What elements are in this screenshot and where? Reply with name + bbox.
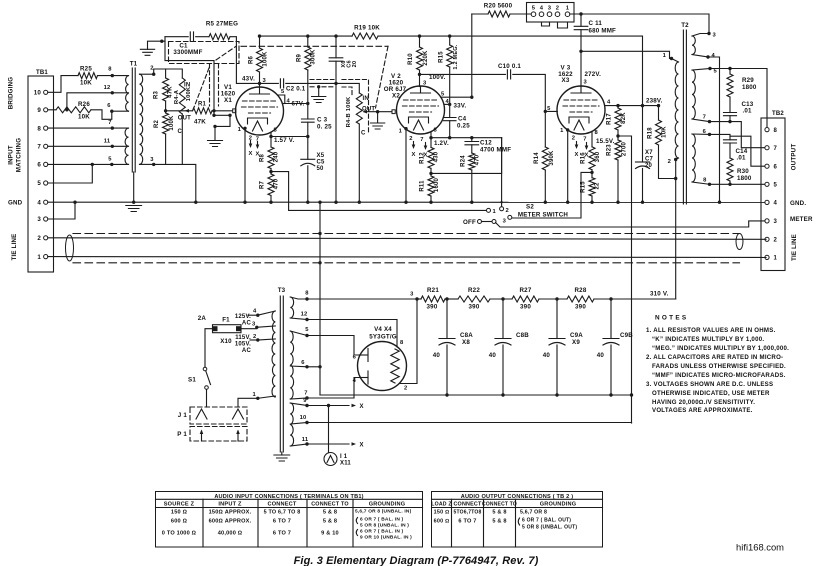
table audio input connections (156, 492, 423, 548)
svg-text:R17: R17 (607, 113, 613, 125)
svg-text:7: 7 (304, 391, 307, 397)
resistor R10 220K (418, 34, 421, 37)
svg-text:0 TO 1000 Ω: 0 TO 1000 Ω (162, 531, 197, 537)
svg-text:X2: X2 (392, 93, 400, 100)
svg-text:AC: AC (242, 321, 252, 327)
V2 pin 8 cathode (431, 132, 502, 138)
svg-text:CONNECT: CONNECT (267, 502, 296, 508)
switch S2 contact 2 (500, 207, 504, 211)
svg-text:CONNECT TO: CONNECT TO (311, 502, 349, 508)
dashed diagonal shield V1 (216, 46, 236, 60)
capacitor C13 .01 (729, 97, 731, 113)
svg-text:2: 2 (404, 386, 407, 392)
svg-text:J 1: J 1 (178, 412, 188, 419)
capacitor C11 680MMF (580, 14, 582, 26)
svg-text:5 & 8: 5 & 8 (492, 510, 506, 516)
ground under T1 (126, 206, 142, 212)
resistor R27 390 (512, 296, 539, 302)
svg-text:15.5V.: 15.5V. (596, 138, 615, 145)
svg-text:12: 12 (301, 312, 308, 318)
svg-text:“MEG.” INDICATES MULTIPLY BY: “MEG.” INDICATES MULTIPLY BY 1,000,000. (652, 345, 789, 352)
svg-text:5: 5 (37, 180, 41, 187)
wire TB1-7 to T1 terminal 11 (48, 145, 113, 147)
wire R2 to T1-3 line (165, 134, 167, 164)
grid shield box with ground (214, 111, 230, 140)
svg-text:1: 1 (493, 209, 497, 215)
wire T3-6 to ground column (307, 366, 320, 368)
resistor R14 390K (544, 111, 546, 147)
resistor R23 2700 (615, 140, 621, 160)
terminal block TB2 (761, 118, 785, 271)
wire V1 cathode tap to meter switch (271, 172, 487, 211)
svg-text:1: 1 (238, 127, 242, 133)
svg-text:6 OR 7 ( BAL. IN ): 6 OR 7 ( BAL. IN ) (360, 517, 404, 523)
resistor R8 240 (270, 137, 272, 148)
T3 secondary 9-10-11 heater (290, 403, 293, 446)
svg-text:N O T E S: N O T E S (655, 315, 687, 322)
svg-text:220K: 220K (423, 50, 429, 66)
svg-text:5,6,7 OR 8: 5,6,7 OR 8 (520, 510, 547, 516)
svg-text:82K: 82K (621, 112, 627, 124)
T3 secondary 8-12 (290, 297, 293, 318)
svg-text:2. ALL CAPACITORS ARE RATED IN: 2. ALL CAPACITORS ARE RATED IN MICRO- (646, 354, 783, 361)
svg-text:R9: R9 (297, 54, 303, 63)
ground stub at V2 grid (377, 112, 379, 123)
svg-text:272V.: 272V. (585, 71, 602, 78)
svg-text:X9: X9 (572, 339, 580, 346)
svg-text:47K: 47K (168, 86, 174, 98)
T3 primary terminal 3 (257, 326, 276, 327)
svg-text:7: 7 (108, 120, 111, 126)
wire feedback vertical to R1 junction (165, 37, 214, 111)
svg-text:11: 11 (104, 139, 111, 145)
svg-text:2: 2 (409, 136, 412, 142)
svg-text:390: 390 (520, 304, 531, 311)
capacitor C9A 40 (X9) (556, 299, 558, 339)
svg-text:X8: X8 (462, 339, 470, 346)
potentiometer R4-A 100K (179, 78, 185, 114)
svg-text:TB2: TB2 (772, 111, 784, 117)
svg-text:T3: T3 (278, 287, 286, 294)
svg-text:100K: 100K (263, 51, 269, 67)
V2 pin 1 (404, 127, 407, 130)
terminal block TB1 (28, 70, 54, 272)
svg-text:HAVING 20,000Ω./V SENSITIVITY: HAVING 20,000Ω./V SENSITIVITY. (652, 399, 755, 406)
svg-text:5: 5 (547, 106, 551, 112)
svg-text:X: X (411, 152, 415, 158)
T2 primary winding (675, 62, 678, 158)
wire V2 cathode tap to meter contact 2 (431, 138, 502, 174)
resistor R15b 22 (591, 170, 593, 178)
svg-text:OFF: OFF (463, 219, 476, 226)
V1 pin 1 (243, 127, 246, 130)
svg-text:5: 5 (281, 89, 285, 95)
V4 plate 4 (359, 377, 368, 379)
svg-text:LOAD Z: LOAD Z (431, 502, 452, 508)
svg-text:R20 5600: R20 5600 (484, 3, 513, 10)
resistor R11 1600 (430, 168, 432, 176)
svg-text:310 V.: 310 V. (650, 291, 669, 298)
svg-text:10: 10 (300, 415, 307, 421)
svg-text:R22: R22 (468, 287, 480, 294)
svg-text:1: 1 (399, 129, 403, 135)
svg-text:C2 0.1: C2 0.1 (286, 86, 306, 93)
svg-text:1: 1 (663, 53, 667, 59)
svg-text:R21: R21 (427, 287, 439, 294)
svg-text:VOLTAGES ARE APPROXIMATE.: VOLTAGES ARE APPROXIMATE. (652, 407, 753, 414)
svg-text:C9B: C9B (620, 332, 633, 339)
svg-text:C7: C7 (645, 157, 654, 163)
resistor R16 360 (589, 147, 595, 170)
svg-text:C: C (361, 131, 366, 137)
heater line 10 to filter return (307, 422, 632, 424)
T1 core (131, 68, 133, 172)
svg-text:43V.: 43V. (242, 76, 255, 83)
svg-text:OUT: OUT (178, 116, 191, 122)
resistor R2 100K (163, 113, 169, 134)
svg-text:7: 7 (703, 115, 706, 121)
svg-text:40: 40 (489, 352, 497, 359)
ground left of C1 (148, 41, 166, 49)
wire T2-6 to C14 (710, 134, 731, 139)
svg-text:AUDIO OUTPUT CONNECTIONS ( TB: AUDIO OUTPUT CONNECTIONS ( TB 2 ) (461, 494, 574, 500)
svg-text:R28: R28 (575, 287, 587, 294)
svg-text:C5: C5 (317, 160, 326, 166)
T1 primary winding section 2 (7,11,5) (125, 128, 128, 164)
tie line shield dashed top (73, 233, 740, 235)
svg-text:600Ω APPROX.: 600Ω APPROX. (209, 519, 252, 525)
feedback column x=472 to R20 (471, 14, 473, 97)
wire R19 right to 238V drop (472, 36, 643, 106)
svg-text:OTHERWISE INDICATED, USE METER: OTHERWISE INDICATED, USE METER (652, 390, 770, 397)
svg-text:7: 7 (774, 146, 778, 152)
svg-text:X: X (360, 443, 364, 449)
svg-text:4: 4 (287, 98, 291, 104)
svg-text:40: 40 (433, 352, 441, 359)
svg-text:X11: X11 (340, 461, 351, 467)
wire fuse to T3-3 (241, 327, 257, 328)
svg-text:470: 470 (475, 154, 481, 165)
svg-text:22: 22 (595, 182, 601, 190)
resistor R25 10K (78, 73, 98, 79)
svg-text:8: 8 (703, 178, 707, 184)
jack J1 (190, 407, 247, 424)
svg-text:67V.: 67V. (292, 101, 305, 108)
svg-text:5 OR 8 (UNBAL. OUT): 5 OR 8 (UNBAL. OUT) (522, 525, 577, 531)
svg-text:40,000 Ω: 40,000 Ω (218, 531, 243, 537)
svg-text:AUDIO INPUT CONNECTIONS ( T: AUDIO INPUT CONNECTIONS ( TERMINALS ON T… (214, 494, 363, 500)
wire V3 plate to T2-1 (581, 51, 670, 58)
svg-text:40: 40 (543, 352, 551, 359)
svg-text:4: 4 (540, 5, 544, 11)
switch S2 contact 3 (508, 215, 512, 219)
resistor R30 1800 (727, 158, 733, 181)
svg-text:2: 2 (774, 238, 778, 244)
svg-text:S1: S1 (188, 377, 196, 384)
svg-text:C4: C4 (458, 116, 467, 123)
V4 pin 2 to B+ (400, 299, 418, 384)
svg-text:C12: C12 (480, 140, 492, 147)
wire pot bottom to T1-3 line (181, 114, 183, 164)
resistor R18 10K (658, 106, 660, 120)
svg-text:150 Ω: 150 Ω (434, 510, 450, 516)
wire R6 to V1 plate (259, 72, 261, 88)
wire R25 to T1 terminal 8 (98, 75, 113, 77)
svg-text:3. VOLTAGES SHOWN ARE D.C. UNL: 3. VOLTAGES SHOWN ARE D.C. UNLESS (646, 381, 773, 388)
svg-text:12: 12 (104, 85, 111, 91)
svg-text:5,6,7 OR 8 (UNBAL. IN): 5,6,7 OR 8 (UNBAL. IN) (355, 509, 412, 515)
svg-text:8: 8 (774, 128, 778, 134)
svg-text:C8A: C8A (460, 332, 473, 339)
svg-text:hifi168.com: hifi168.com (736, 542, 784, 553)
capacitor C9B 40 (610, 299, 612, 339)
svg-text:9 & 10: 9 & 10 (321, 531, 339, 537)
tie line shield dashed bottom (73, 262, 740, 264)
tube V2 1620 (397, 86, 445, 134)
V2 grid terminal (392, 110, 395, 114)
svg-text:600 Ω: 600 Ω (434, 519, 450, 525)
wire TB1-9 line (48, 109, 56, 111)
dashed shield line to V2 area (241, 45, 388, 47)
V3 plate pin 3 (580, 51, 582, 86)
svg-text:5: 5 (532, 5, 536, 11)
svg-text:.01: .01 (743, 108, 753, 115)
T2 secondary section 5-7 (692, 70, 695, 119)
svg-text:1. ALL RESISTOR VALUES ARE IN: 1. ALL RESISTOR VALUES ARE IN OHMS. (646, 327, 776, 334)
svg-text:R4-A: R4-A (174, 89, 180, 104)
wire B+ top line (260, 35, 353, 37)
svg-text:Fig. 3 Elementary Diagram (: Fig. 3 Elementary Diagram (P-7764947, Re… (294, 555, 539, 566)
svg-text:11: 11 (302, 437, 309, 443)
svg-text:R3: R3 (154, 91, 160, 100)
svg-text:TB1: TB1 (36, 70, 48, 76)
svg-text:X7: X7 (645, 150, 653, 156)
svg-text:2: 2 (572, 136, 575, 142)
svg-text:9: 9 (303, 398, 307, 404)
svg-text:40: 40 (597, 352, 605, 359)
wire tap to T1 terminal 12 (67, 93, 112, 110)
svg-text:1: 1 (560, 128, 564, 134)
svg-text:100K: 100K (169, 115, 175, 131)
V2 pin 5 to feedback column (441, 96, 472, 98)
svg-text:X5: X5 (317, 153, 325, 159)
svg-text:TIE LINE: TIE LINE (791, 234, 798, 261)
capacitor C14 .01 (724, 140, 737, 143)
svg-text:1600: 1600 (434, 177, 440, 192)
T1 shield to ground (133, 172, 135, 203)
capacitor C10 0.1 (507, 70, 510, 79)
wire TB1-5 strap (48, 164, 93, 183)
svg-text:50: 50 (317, 166, 325, 172)
svg-text:6: 6 (703, 129, 707, 135)
svg-text:R16: R16 (581, 152, 587, 164)
svg-text:2: 2 (668, 159, 671, 165)
svg-text:7: 7 (420, 137, 423, 143)
svg-text:430: 430 (434, 151, 440, 162)
T3 core (279, 296, 281, 452)
svg-text:1.57 V.: 1.57 V. (274, 137, 295, 144)
svg-text:X: X (360, 404, 364, 410)
wire V3 cathode tap to meter contact 3 (512, 172, 593, 218)
svg-text:R19 10K: R19 10K (354, 25, 380, 32)
svg-text:R25: R25 (80, 66, 92, 73)
resistor R12 430 (430, 138, 432, 148)
svg-text:9 OR 10 (UNBAL. IN ): 9 OR 10 (UNBAL. IN ) (360, 535, 412, 541)
wire R5 to V1 plate node (230, 37, 258, 84)
svg-text:8: 8 (595, 130, 599, 136)
switch S2 contact 1 (487, 208, 491, 212)
svg-text:5TO6,7TO8: 5TO6,7TO8 (453, 510, 481, 516)
svg-text:METER: METER (790, 216, 813, 223)
svg-text:5: 5 (774, 183, 778, 189)
svg-text:1.2V.: 1.2V. (434, 140, 449, 147)
svg-text:4: 4 (253, 309, 257, 315)
svg-text:R7: R7 (260, 181, 266, 190)
plug P1 (190, 427, 247, 442)
svg-text:R8: R8 (260, 154, 266, 163)
svg-text:X3: X3 (562, 77, 570, 84)
svg-text:GROUNDING: GROUNDING (369, 502, 406, 508)
tube V3 1622 (557, 86, 605, 134)
svg-text:390: 390 (575, 304, 586, 311)
T2 core (682, 30, 684, 204)
V1 pin 8 cathode (271, 132, 308, 137)
svg-text:R10: R10 (408, 53, 414, 65)
capacitor C7 20 (X7) (642, 106, 644, 162)
svg-text:8: 8 (400, 340, 404, 346)
shield ground stub near C2 (310, 79, 334, 81)
capacitor C3 0.25 (302, 119, 315, 122)
wire T3-8 to junction 3 (307, 298, 417, 300)
svg-text:“K” INDICATES MULTIPLY BY 1: “K” INDICATES MULTIPLY BY 1,000. (652, 336, 764, 343)
capacitor C8A 40 (X8) (446, 299, 448, 339)
svg-text:5: 5 (305, 327, 309, 333)
wire T2-7 to TB2-7 (710, 122, 766, 148)
dashed diagonal along R1 (193, 68, 209, 110)
wire TB1-3 to bus (48, 202, 75, 219)
wire T2-5 to TB2-8 (710, 69, 767, 128)
wire 100V plate line (420, 73, 506, 75)
pilot lamp I1 X11 (328, 406, 330, 453)
table audio output connections (431, 492, 602, 548)
svg-text:0.25: 0.25 (457, 123, 470, 130)
wire T2-4 to ground bus (708, 57, 720, 202)
svg-text:9: 9 (37, 107, 41, 114)
svg-text:390: 390 (469, 304, 480, 311)
wire T3-1 to J1 (238, 398, 258, 407)
svg-text:6 TO 7: 6 TO 7 (458, 519, 476, 525)
V3 pin 4 screen 238V line (605, 105, 659, 107)
heater X arrow 11 (307, 443, 349, 445)
svg-text:R18: R18 (648, 127, 654, 139)
svg-text:C 3: C 3 (317, 117, 328, 124)
capacitor C6 20 (X6) column (334, 34, 337, 37)
svg-text:R2: R2 (154, 120, 160, 129)
tie line 2 (48, 238, 766, 240)
V1 pins 5,4 screen bracket (277, 95, 307, 104)
tube V1 1620 (236, 87, 284, 135)
wire C14 tap to TB2-6 (730, 136, 765, 166)
svg-text:3: 3 (774, 219, 778, 225)
wire V2 cathode column to meter contact 2 (501, 138, 503, 207)
V1 grid terminal (233, 109, 236, 113)
svg-text:2: 2 (37, 235, 41, 242)
svg-text:5: 5 (441, 92, 445, 98)
svg-text:47K: 47K (194, 119, 206, 126)
resistor R6 100K (258, 34, 261, 37)
svg-text:R11: R11 (420, 180, 426, 192)
svg-text:20: 20 (645, 163, 653, 169)
svg-text:5 OR 8 (UNBAL. IN ): 5 OR 8 (UNBAL. IN ) (360, 523, 409, 529)
T2 secondary section 3-4 (692, 36, 695, 55)
svg-text:R1: R1 (198, 102, 207, 108)
svg-text:CONNECT: CONNECT (453, 502, 482, 508)
svg-text:3300MMF: 3300MMF (173, 49, 202, 56)
V4 plate 6 (359, 354, 368, 356)
svg-text:3: 3 (584, 80, 588, 86)
svg-text:6 TO 7: 6 TO 7 (273, 531, 291, 537)
svg-text:100V.: 100V. (429, 74, 446, 81)
svg-text:2A: 2A (198, 315, 207, 322)
svg-text:C10 0.1: C10 0.1 (498, 63, 521, 70)
resistor R26 10K (56, 107, 91, 113)
tube V4 5Y3GT/G (358, 342, 407, 391)
resistor R19 10K (352, 33, 378, 39)
svg-text:CONNECT TO: CONNECT TO (482, 502, 517, 508)
svg-text:680 MMF: 680 MMF (589, 28, 617, 35)
svg-text:6 TO 7: 6 TO 7 (273, 519, 291, 525)
T2 secondary section 6-8 (692, 134, 695, 182)
svg-text:INPUT Z: INPUT Z (218, 502, 242, 508)
svg-text:2: 2 (506, 208, 509, 214)
wire R1 to V1 grid (212, 110, 233, 112)
svg-text:2: 2 (556, 5, 559, 11)
svg-text:R5 27MEG: R5 27MEG (206, 21, 238, 28)
wire T1-2 to pot tops (154, 69, 183, 78)
svg-text:.01: .01 (737, 155, 747, 162)
socket straps (542, 22, 550, 26)
T3 primary terminal 2 (258, 339, 276, 340)
T3 secondary 5-6-7 HV (290, 331, 293, 399)
capacitor C4 0.25 (449, 104, 451, 117)
svg-text:6 OR 7 ( BAL. IN ): 6 OR 7 ( BAL. IN ) (360, 529, 404, 535)
svg-text:6: 6 (107, 103, 111, 109)
resistor R24 470 (469, 153, 475, 170)
svg-text:C8B: C8B (516, 332, 529, 339)
svg-text:1800: 1800 (742, 84, 757, 91)
resistor R20 5600 (472, 13, 488, 15)
svg-text:C 11: C 11 (589, 20, 603, 27)
svg-text:6: 6 (37, 162, 41, 169)
svg-text:10: 10 (34, 90, 42, 97)
svg-text:5: 5 (714, 69, 718, 75)
T3 core to ground (281, 452, 283, 455)
svg-text:AC: AC (242, 348, 252, 354)
wire socket pin1 to T2-3 (570, 14, 709, 33)
svg-text:R12: R12 (420, 152, 426, 164)
svg-text:X1: X1 (224, 97, 232, 104)
svg-text:8: 8 (274, 128, 278, 134)
capacitor C12 4700MMF (471, 138, 473, 142)
svg-text:TIE LINE: TIE LINE (11, 233, 18, 260)
wire TB1-10 to R25 (48, 76, 78, 93)
svg-text:INPUT: INPUT (8, 145, 15, 165)
resistor R7 470 (270, 169, 272, 175)
capacitor C1 3300MMF (165, 36, 188, 38)
wire R26 to T1 terminal 6 (91, 110, 112, 120)
svg-text:1800: 1800 (737, 175, 752, 182)
svg-text:T1: T1 (130, 61, 138, 68)
